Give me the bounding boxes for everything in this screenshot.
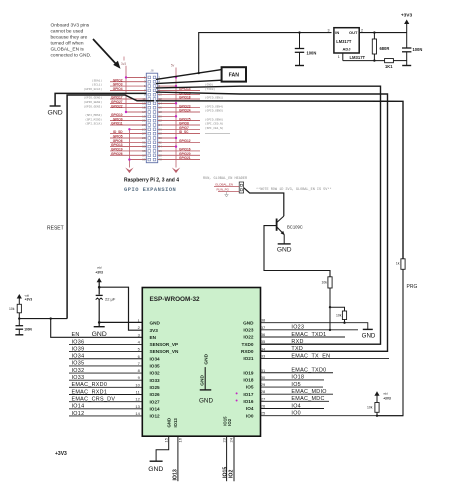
svg-text:GPIO22: GPIO22 (111, 104, 123, 108)
svg-text:ADJ: ADJ (342, 47, 350, 52)
wire/net IO23 from ESP (261, 325, 359, 331)
svg-text:+3V3: +3V3 (95, 271, 103, 275)
svg-text:PRG: PRG (407, 284, 418, 290)
svg-text:IO4: IO4 (291, 403, 301, 409)
wire RESET net from J8 down left side (67, 95, 154, 319)
voltage regulator U1 LM317T (328, 28, 366, 60)
svg-text:RUN, GLOBAL_EN HEADER: RUN, GLOBAL_EN HEADER (203, 177, 248, 181)
wire/net IO33 to ESP pin 9 (69, 375, 142, 381)
svg-text:10: 10 (135, 382, 140, 387)
svg-text:1k: 1k (396, 262, 400, 266)
svg-text:IO21: IO21 (243, 356, 254, 361)
junction dot 5V feed to regulator (198, 72, 200, 74)
svg-text:1K1: 1K1 (385, 64, 393, 69)
wire/net IO36 to ESP pin 4 (69, 339, 142, 345)
svg-text:OUT: OUT (349, 30, 358, 35)
svg-text:3v3: 3v3 (121, 62, 126, 66)
svg-text:GND: GND (199, 398, 213, 405)
svg-text:cannot be used: cannot be used (51, 28, 84, 34)
svg-text:J8: J8 (150, 68, 154, 72)
svg-text:IO13: IO13 (173, 469, 179, 480)
svg-text:35: 35 (261, 339, 266, 344)
J8 pin squares (148, 76, 156, 161)
ESP left pin names (150, 321, 180, 419)
junction dot GND pin25 (128, 128, 130, 130)
J8 left GPIO net labels (111, 78, 123, 156)
wire IO2 from ESP pin24 (229, 436, 235, 481)
junction dot EN node (18, 317, 20, 319)
svg-text:IO5: IO5 (291, 382, 301, 388)
svg-text:(GPIO_GEN5): (GPIO_GEN5) (205, 109, 224, 113)
svg-text:38: 38 (261, 318, 266, 323)
wire transistor base to 10k divider (264, 226, 330, 277)
junction dot 5v/GND rail pin34 (175, 145, 177, 147)
junction dot 5v/GND rail pin2 (175, 76, 177, 78)
svg-text:EMAC_TX_EN: EMAC_TX_EN (291, 353, 330, 359)
svg-text:GLOBAL_EN is: GLOBAL_EN is (51, 46, 85, 52)
wire/net IO34 to ESP pin 6 (69, 354, 142, 360)
svg-text:(SPI_MISO): (SPI_MISO) (85, 117, 102, 121)
wire TXD0 loop from J8 pin8 to ESP RXD (156, 86, 381, 344)
resistor R6 10k IO0 pullup (367, 403, 379, 416)
svg-text:IO34: IO34 (150, 356, 161, 361)
note text about onboard 3V3 pins (51, 23, 92, 59)
svg-text:IO17: IO17 (243, 392, 254, 397)
wire regulator ADJ network (343, 53, 385, 61)
svg-text:IO35: IO35 (72, 361, 85, 367)
svg-text:BC109C: BC109C (287, 224, 303, 229)
svg-text:37: 37 (261, 325, 266, 330)
wire J8 pin4 to FAN (156, 80, 222, 83)
junction dot on IO23 wire (329, 329, 331, 331)
wire/net EMAC_RXD1 to ESP pin 11 (69, 389, 142, 395)
junction dot 680R top (373, 31, 375, 33)
svg-text:+3V3: +3V3 (25, 298, 33, 302)
svg-text:GND: GND (277, 247, 292, 254)
svg-text:EMAC_CRS_DV: EMAC_CRS_DV (72, 396, 116, 402)
svg-text:5v: 5v (171, 63, 175, 67)
+3V3 arrow EN pullup (17, 294, 33, 305)
svg-text:(GND): (GND) (205, 83, 214, 87)
3v3 power rail on J8 left (121, 57, 126, 113)
ground symbol regulator output cap (402, 65, 411, 67)
wire/net IO4 from ESP (261, 403, 325, 409)
junction dot IO0 pullup (376, 415, 378, 417)
svg-text:IN: IN (335, 30, 339, 35)
wire/net IO35 to ESP pin 7 (69, 361, 142, 367)
svg-text:GPIO12: GPIO12 (179, 139, 191, 143)
wire/net EMAC_CRS_DV to ESP pin 12 (69, 396, 142, 402)
J8 left signal name annotations (84, 78, 103, 125)
svg-text:SENSOR_VN: SENSOR_VN (150, 349, 180, 354)
wire/net IO18 from ESP (261, 375, 325, 381)
svg-text:GPIO18: GPIO18 (179, 96, 191, 100)
svg-text:IO0: IO0 (246, 413, 254, 418)
no-connect dot IO16 (236, 400, 238, 402)
svg-text:vdd: vdd (383, 392, 388, 396)
wire EN branch to ESP (51, 319, 143, 338)
svg-text:GND: GND (166, 418, 171, 428)
wire 5V riser to regulator input (199, 33, 332, 74)
svg-text:(SPI_MOSI): (SPI_MOSI) (85, 113, 102, 117)
svg-text:LM317T: LM317T (350, 55, 366, 60)
wire/net EMAC_TXD1 from ESP (261, 332, 346, 338)
wire/net EMAC_MDIO from ESP (261, 389, 334, 395)
svg-text:36: 36 (261, 332, 266, 337)
junction dot GND node under cap (98, 321, 101, 324)
FAN connector (222, 67, 246, 81)
svg-text:30: 30 (261, 375, 266, 380)
svg-text:(GPIO_GEN4): (GPIO_GEN4) (205, 104, 224, 108)
+3V3 arrow regulator output (401, 12, 413, 48)
wire GND bus from J8 pin9 to GND symbol (55, 93, 146, 106)
svg-text:EMAC_RXD1: EMAC_RXD1 (72, 389, 108, 395)
capacitor C1 22uF (96, 295, 116, 322)
wire PRG to IO0 (377, 269, 403, 415)
svg-text:IO23: IO23 (243, 327, 254, 332)
wire 5V diagonal J8 pin2 to FAN (156, 70, 222, 80)
svg-text:(GPIO_GEN1): (GPIO_GEN1) (205, 96, 224, 100)
resistor R4 10k pulldown (330, 307, 347, 323)
GLOBAL_EN net label (214, 183, 239, 187)
svg-text:TXD: TXD (291, 346, 303, 352)
svg-text:24: 24 (228, 437, 233, 442)
5v power rail on J8 right (171, 63, 176, 164)
wire ESP pin15 to GND (148, 436, 168, 473)
J8 right pin stub wires (158, 86, 200, 160)
svg-text:IO27: IO27 (150, 399, 161, 404)
svg-text:(SDA1): (SDA1) (92, 78, 102, 82)
svg-text:22 µF: 22 µF (105, 296, 116, 301)
ESP bottom pin numbers (163, 437, 233, 442)
junction dot 5v/GND rail pin20 (175, 115, 177, 117)
svg-text:34: 34 (261, 346, 266, 351)
svg-text:GLOBAL_EN: GLOBAL_EN (215, 183, 233, 187)
svg-text:RESET: RESET (47, 226, 64, 232)
resistor 680R (372, 33, 389, 61)
svg-text:100N: 100N (307, 51, 317, 56)
svg-text:IO12: IO12 (150, 414, 161, 419)
svg-text:29: 29 (261, 382, 266, 387)
svg-text:GPIO21: GPIO21 (179, 156, 191, 160)
wire IO13 from ESP pin16 (173, 436, 179, 481)
svg-text:ID_SC: ID_SC (179, 130, 189, 134)
+3V3 arrow IO0 pullup (374, 391, 391, 402)
J8 right signal name annotations (205, 83, 230, 134)
svg-text:3: 3 (328, 28, 330, 32)
svg-text:EMAC_MDIO: EMAC_MDIO (291, 389, 326, 395)
svg-text:25: 25 (261, 411, 266, 416)
ESP pad pin39 GND (199, 353, 213, 404)
svg-text:(SPI_CE0_N): (SPI_CE0_N) (205, 122, 224, 126)
junction dot on GND wire (343, 322, 345, 324)
wire/net IO5 from ESP (261, 382, 324, 388)
svg-text:ESP-WROOM-32: ESP-WROOM-32 (150, 296, 201, 303)
svg-text:10k: 10k (336, 314, 342, 318)
GND rail on J8 left (128, 129, 130, 164)
svg-text:IO16: IO16 (243, 399, 254, 404)
capacitor 100N regulator output (402, 47, 422, 66)
wire 3V3 to ESP pin2 (99, 287, 142, 330)
svg-text:RUN_PG: RUN_PG (216, 188, 229, 192)
ground symbol left of J8 (48, 106, 63, 117)
svg-text:IO2: IO2 (227, 418, 232, 426)
svg-text:(SPI_SCLK): (SPI_SCLK) (85, 122, 102, 126)
wire GLOBAL_EN to transistor collector (244, 188, 284, 216)
J8 pin numbers (142, 75, 162, 161)
svg-text:IO19: IO19 (243, 370, 254, 375)
wire/net EMAC_MDC from ESP (261, 396, 330, 402)
svg-text:(SPI_CE1_N): (SPI_CE1_N) (205, 126, 224, 130)
capacitor C2 100N EN (16, 319, 33, 335)
+3V3 arrow ESP supply (95, 266, 103, 295)
svg-text:+3V3: +3V3 (55, 451, 67, 457)
svg-text:(SCL1): (SCL1) (92, 83, 102, 87)
wire RXD0 loop from J8 pin10 to ESP TXD (156, 92, 388, 351)
junction dot 5v/GND rail pin30 (175, 137, 177, 139)
svg-text:(GPIO_GEN3): (GPIO_GEN3) (84, 104, 103, 108)
svg-text:27: 27 (261, 396, 266, 401)
svg-text:EMAC_RXD0: EMAC_RXD0 (72, 382, 108, 388)
svg-text:vdd: vdd (97, 266, 102, 270)
wire/net EMAC_RXD0 to ESP pin 10 (69, 382, 142, 388)
svg-text:LM317T: LM317T (336, 39, 352, 44)
ESP bottom pin names (166, 416, 232, 428)
svg-text:26: 26 (261, 404, 266, 409)
ground symbol under 22uF (92, 322, 107, 337)
svg-text:IO22: IO22 (243, 335, 254, 340)
wire IO15 from ESP pin23 (223, 436, 229, 481)
svg-text:turned off when: turned off when (51, 40, 84, 46)
wire/net EMAC_TXD0 from ESP (261, 368, 334, 374)
svg-text:EN: EN (150, 335, 157, 340)
svg-text:RXD: RXD (291, 339, 303, 345)
svg-text:GPIO EXPANSION: GPIO EXPANSION (124, 187, 176, 193)
svg-text:2: 2 (361, 28, 363, 32)
ground symbol transistor emitter (277, 235, 292, 254)
svg-text:GND: GND (199, 375, 205, 386)
svg-text:(GPIO_GEN0): (GPIO_GEN0) (84, 96, 103, 100)
junction dot 5v/GND rail pin6 (175, 85, 177, 87)
svg-text:GND: GND (204, 353, 210, 364)
svg-text:IO18: IO18 (243, 378, 254, 383)
svg-text:IO14: IO14 (72, 404, 85, 410)
svg-text:3V3: 3V3 (150, 328, 159, 333)
wire GPIO18 loop to PRG resistor (156, 101, 403, 259)
svg-text:GPIO24: GPIO24 (179, 109, 191, 113)
resistor R5 1k PRG (396, 259, 405, 270)
svg-text:10k: 10k (9, 307, 15, 311)
resistor 1K1 (385, 59, 407, 70)
RUN_PG net label (216, 188, 239, 192)
svg-text:EMAC_TXD0: EMAC_TXD0 (291, 368, 326, 374)
svg-text:+3V3: +3V3 (401, 12, 413, 18)
svg-text:IO32: IO32 (72, 368, 85, 374)
svg-text:IO14: IO14 (150, 406, 161, 411)
svg-text:Onboard 3V3 pins: Onboard 3V3 pins (51, 23, 90, 29)
svg-text:(GPIO_GEN6): (GPIO_GEN6) (205, 117, 224, 121)
svg-text:IO35: IO35 (150, 364, 161, 369)
ground symbol EN cap (15, 334, 23, 336)
wire/net TXD from ESP (261, 346, 388, 352)
svg-text:680R: 680R (380, 46, 390, 51)
svg-text:100N: 100N (413, 47, 423, 52)
ground symbol regulator input cap (295, 65, 304, 67)
wire regulator output to +3V3 (359, 32, 407, 34)
svg-text:IO12: IO12 (72, 411, 85, 417)
J8 left pin stub wires (110, 77, 146, 159)
capacitor 100N regulator input (295, 33, 317, 66)
svg-text:(GPIO_GEN2): (GPIO_GEN2) (84, 100, 103, 104)
GND arrow below J8 right (172, 165, 180, 174)
svg-text:EMAC_TXD1: EMAC_TXD1 (291, 332, 326, 338)
svg-text:IO18: IO18 (291, 375, 304, 381)
wire/net IO14 to ESP pin 13 (69, 404, 142, 410)
svg-text:31: 31 (261, 368, 266, 373)
svg-text:+3V3: +3V3 (383, 397, 391, 401)
svg-text:RXD0: RXD0 (241, 349, 254, 354)
svg-text:SENSOR_VP: SENSOR_VP (150, 342, 179, 347)
connector RUN/GLOBAL_EN (239, 182, 243, 193)
junction dot ADJ node (373, 59, 375, 61)
junction dot 3v3 pin1 (125, 76, 127, 78)
svg-text:IO23: IO23 (291, 325, 304, 331)
svg-text:TXD0: TXD0 (242, 342, 254, 347)
svg-text:(GPIO_GCLK): (GPIO_GCLK) (84, 87, 103, 91)
junction dot 3v3 pin17 (125, 111, 127, 113)
svg-text:IO26: IO26 (150, 392, 161, 397)
junction dot regulator input cap (298, 31, 300, 33)
wire EN pullup node (19, 318, 67, 320)
wire/net IO39 to ESP pin 5 (69, 346, 142, 352)
svg-text:GPIO26: GPIO26 (111, 152, 123, 156)
svg-text:IO34: IO34 (72, 354, 85, 360)
svg-text:13: 13 (135, 404, 140, 409)
svg-text:EN: EN (72, 332, 80, 338)
svg-text:GPIO4: GPIO4 (113, 87, 123, 91)
junction dot GND pin39 (128, 158, 130, 160)
svg-text:40: 40 (159, 158, 163, 162)
junction dot 5v/GND rail pin14 (175, 102, 177, 104)
svg-text:IO33: IO33 (150, 378, 161, 383)
svg-text:IO32: IO32 (150, 371, 161, 376)
J8 right GPIO net labels (179, 87, 191, 160)
ESP left pin numbers (135, 318, 140, 416)
wire/net RXD from ESP (261, 339, 381, 345)
svg-text:100N: 100N (24, 328, 32, 332)
svg-text:IO39: IO39 (72, 346, 85, 352)
wire/net IO12 to ESP pin 14 (69, 411, 142, 417)
svg-text:GND: GND (148, 466, 163, 473)
svg-text:IO15: IO15 (223, 467, 229, 478)
ESP right pin numbers (261, 318, 266, 416)
svg-text:GND: GND (362, 333, 376, 340)
svg-text:IO13: IO13 (173, 418, 178, 428)
module U2 ESP-WROOM-32 body (142, 288, 260, 437)
svg-text:(TXD0): (TXD0) (205, 87, 215, 91)
ESP right pin names (241, 320, 254, 418)
svg-text:39: 39 (142, 158, 146, 162)
no-connect dot IO17 (236, 392, 238, 394)
wire/net EMAC_TX_EN from ESP (261, 353, 390, 359)
wire/net IO32 to ESP pin 8 (69, 368, 142, 374)
svg-text:IO36: IO36 (72, 339, 85, 345)
svg-text:IO2: IO2 (229, 470, 235, 478)
svg-text:33: 33 (261, 353, 266, 358)
svg-text:EMAC_MDC: EMAC_MDC (291, 396, 324, 402)
svg-text:23: 23 (222, 437, 227, 442)
wire ESP pin38 GND (261, 323, 376, 340)
junction dot 3V3 node (98, 286, 101, 289)
wire/net IO0 from ESP (261, 410, 404, 416)
svg-text:FAN: FAN (229, 73, 240, 79)
svg-text:IO5: IO5 (246, 385, 254, 390)
svg-text:IO33: IO33 (72, 375, 85, 381)
svg-text:**NOTE ROW 1D 3V3, GLOBAL_EN I: **NOTE ROW 1D 3V3, GLOBAL_EN IS 5V** (256, 187, 332, 192)
svg-text:Raspberry Pi 2, 3 and 4: Raspberry Pi 2, 3 and 4 (124, 177, 179, 183)
svg-text:10k: 10k (367, 406, 373, 410)
connector J8 outline (146, 73, 157, 163)
small gnd arrow under header (225, 191, 229, 197)
svg-text:GND: GND (150, 321, 161, 326)
svg-text:GPIO11: GPIO11 (111, 122, 123, 126)
svg-text:IO4: IO4 (246, 406, 254, 411)
svg-text:GND: GND (243, 320, 254, 325)
wire cap GND to ESP pin1 (99, 321, 142, 323)
svg-text:GND: GND (48, 110, 63, 117)
note arrow (93, 39, 121, 69)
resistor R1 10k EN pullup (9, 304, 21, 318)
svg-text:1: 1 (338, 55, 340, 59)
svg-text:connected to GND.: connected to GND. (51, 52, 92, 58)
junction dot base divider (329, 306, 331, 308)
svg-text:12: 12 (135, 397, 140, 402)
transistor Q1 BC109C (277, 216, 303, 235)
svg-text:15: 15 (163, 437, 168, 442)
GND arrow below J8 left (125, 165, 133, 174)
svg-text:14: 14 (135, 411, 140, 416)
resistor R3 10k base (322, 277, 333, 330)
svg-text:GND: GND (92, 331, 107, 338)
svg-text:IO25: IO25 (150, 385, 161, 390)
svg-text:10k: 10k (322, 281, 328, 285)
svg-text:28: 28 (261, 389, 266, 394)
svg-text:IO0: IO0 (291, 410, 301, 416)
junction dot EN branch (50, 317, 52, 319)
svg-text:because they are: because they are (51, 34, 88, 40)
